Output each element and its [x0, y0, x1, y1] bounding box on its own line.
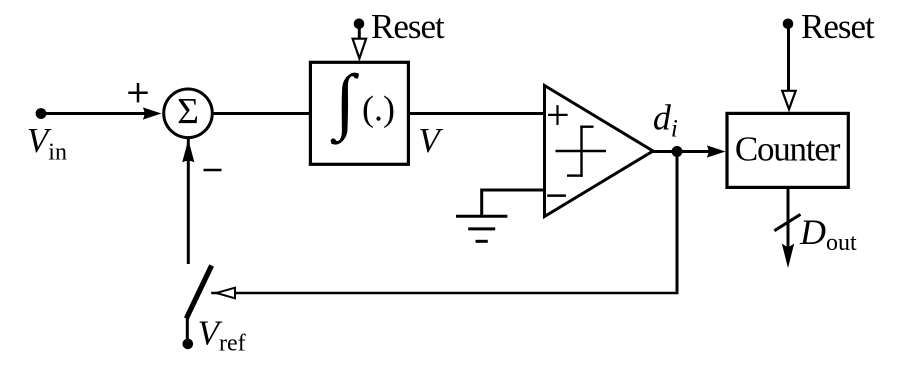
node Vref terminal dot — [183, 339, 194, 350]
arrowhead into counter — [707, 145, 726, 157]
node di junction dot — [672, 146, 683, 157]
arrowhead into summer bottom — [182, 140, 194, 163]
comparator U3 triangle — [545, 86, 654, 217]
bus slash on Dout wire — [774, 214, 800, 230]
integral top ball terminal — [354, 73, 359, 78]
arrowhead into summer — [143, 107, 162, 119]
wire reset to counter — [787, 24, 790, 92]
switch S1 blade — [186, 266, 211, 319]
svg-text:V: V — [418, 121, 443, 160]
label - (summer minus input) — [204, 169, 222, 172]
wire comparator minus input to ground — [482, 190, 544, 215]
arrowhead Dout down — [782, 244, 794, 269]
reset dot for counter — [783, 19, 794, 30]
open arrowhead reset into integrator — [353, 39, 367, 59]
comparator - input label — [547, 194, 566, 197]
wire Vin to summer — [41, 112, 147, 115]
svg-text:Reset: Reset — [371, 7, 445, 46]
ground symbol — [456, 216, 507, 241]
open arrowhead reset into counter — [782, 91, 796, 110]
open arrowhead feedback to switch — [216, 288, 235, 299]
wire switch to Vref dot — [186, 317, 189, 344]
wire reset to integrator — [358, 24, 361, 40]
comparator + input label — [548, 105, 568, 125]
feedback wire from node di down — [676, 152, 679, 292]
wire integrator to comparator — [409, 112, 545, 115]
wire summer to integrator — [212, 112, 309, 115]
svg-text:∫: ∫ — [331, 60, 359, 145]
wire node di to counter — [677, 150, 711, 153]
comparator hysteresis symbol — [556, 126, 607, 177]
summer U1 sigma circle — [164, 89, 213, 138]
integral bottom ball terminal — [331, 138, 336, 143]
label + (summer plus input) — [128, 83, 147, 102]
svg-text:Counter: Counter — [735, 130, 841, 169]
node Vin terminal dot — [36, 108, 47, 119]
svg-text:(.): (.) — [362, 89, 395, 129]
wire counter to Dout — [787, 188, 790, 250]
integrator block U2 — [310, 62, 408, 164]
wire comparator output to node di — [652, 150, 677, 153]
counter block U4 — [727, 113, 848, 187]
svg-text:Reset: Reset — [801, 7, 875, 46]
reset dot for integrator — [354, 19, 365, 30]
svg-text:Σ: Σ — [177, 92, 199, 133]
feedback wire bottom run — [211, 292, 678, 295]
wire summer minus input from switch — [187, 139, 190, 264]
